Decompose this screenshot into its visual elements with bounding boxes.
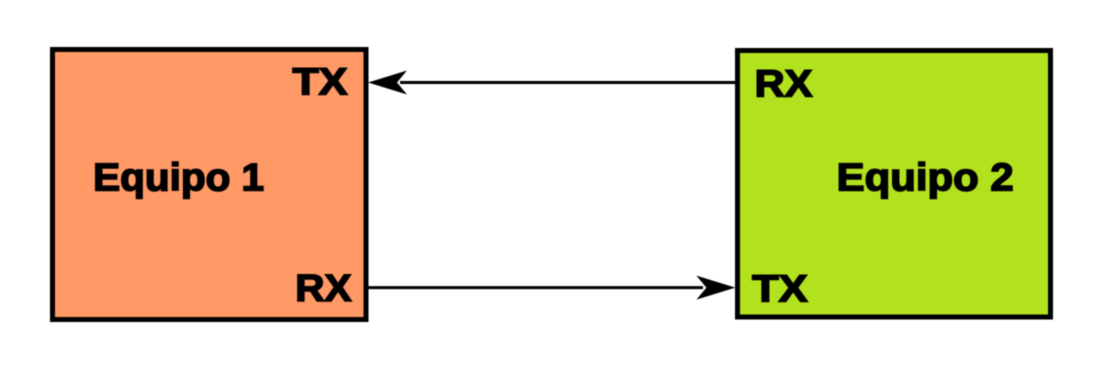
box Equipo 1 [53,50,367,320]
arrowhead into TX (Equipo 1) [368,71,407,95]
svg-text:TX: TX [293,61,349,103]
svg-text:Equipo 1: Equipo 1 [93,156,264,199]
box Equipo 2 [738,51,1051,318]
wire RX(Equipo 2) to TX(Equipo 1) [400,81,735,84]
svg-text:RX: RX [295,268,352,310]
svg-text:Equipo 2: Equipo 2 [837,156,1014,199]
svg-text:TX: TX [752,268,808,310]
wire RX(Equipo 1) to TX(Equipo 2) [368,286,703,289]
arrowhead into TX (Equipo 2) [696,276,735,300]
svg-text:RX: RX [755,64,814,106]
